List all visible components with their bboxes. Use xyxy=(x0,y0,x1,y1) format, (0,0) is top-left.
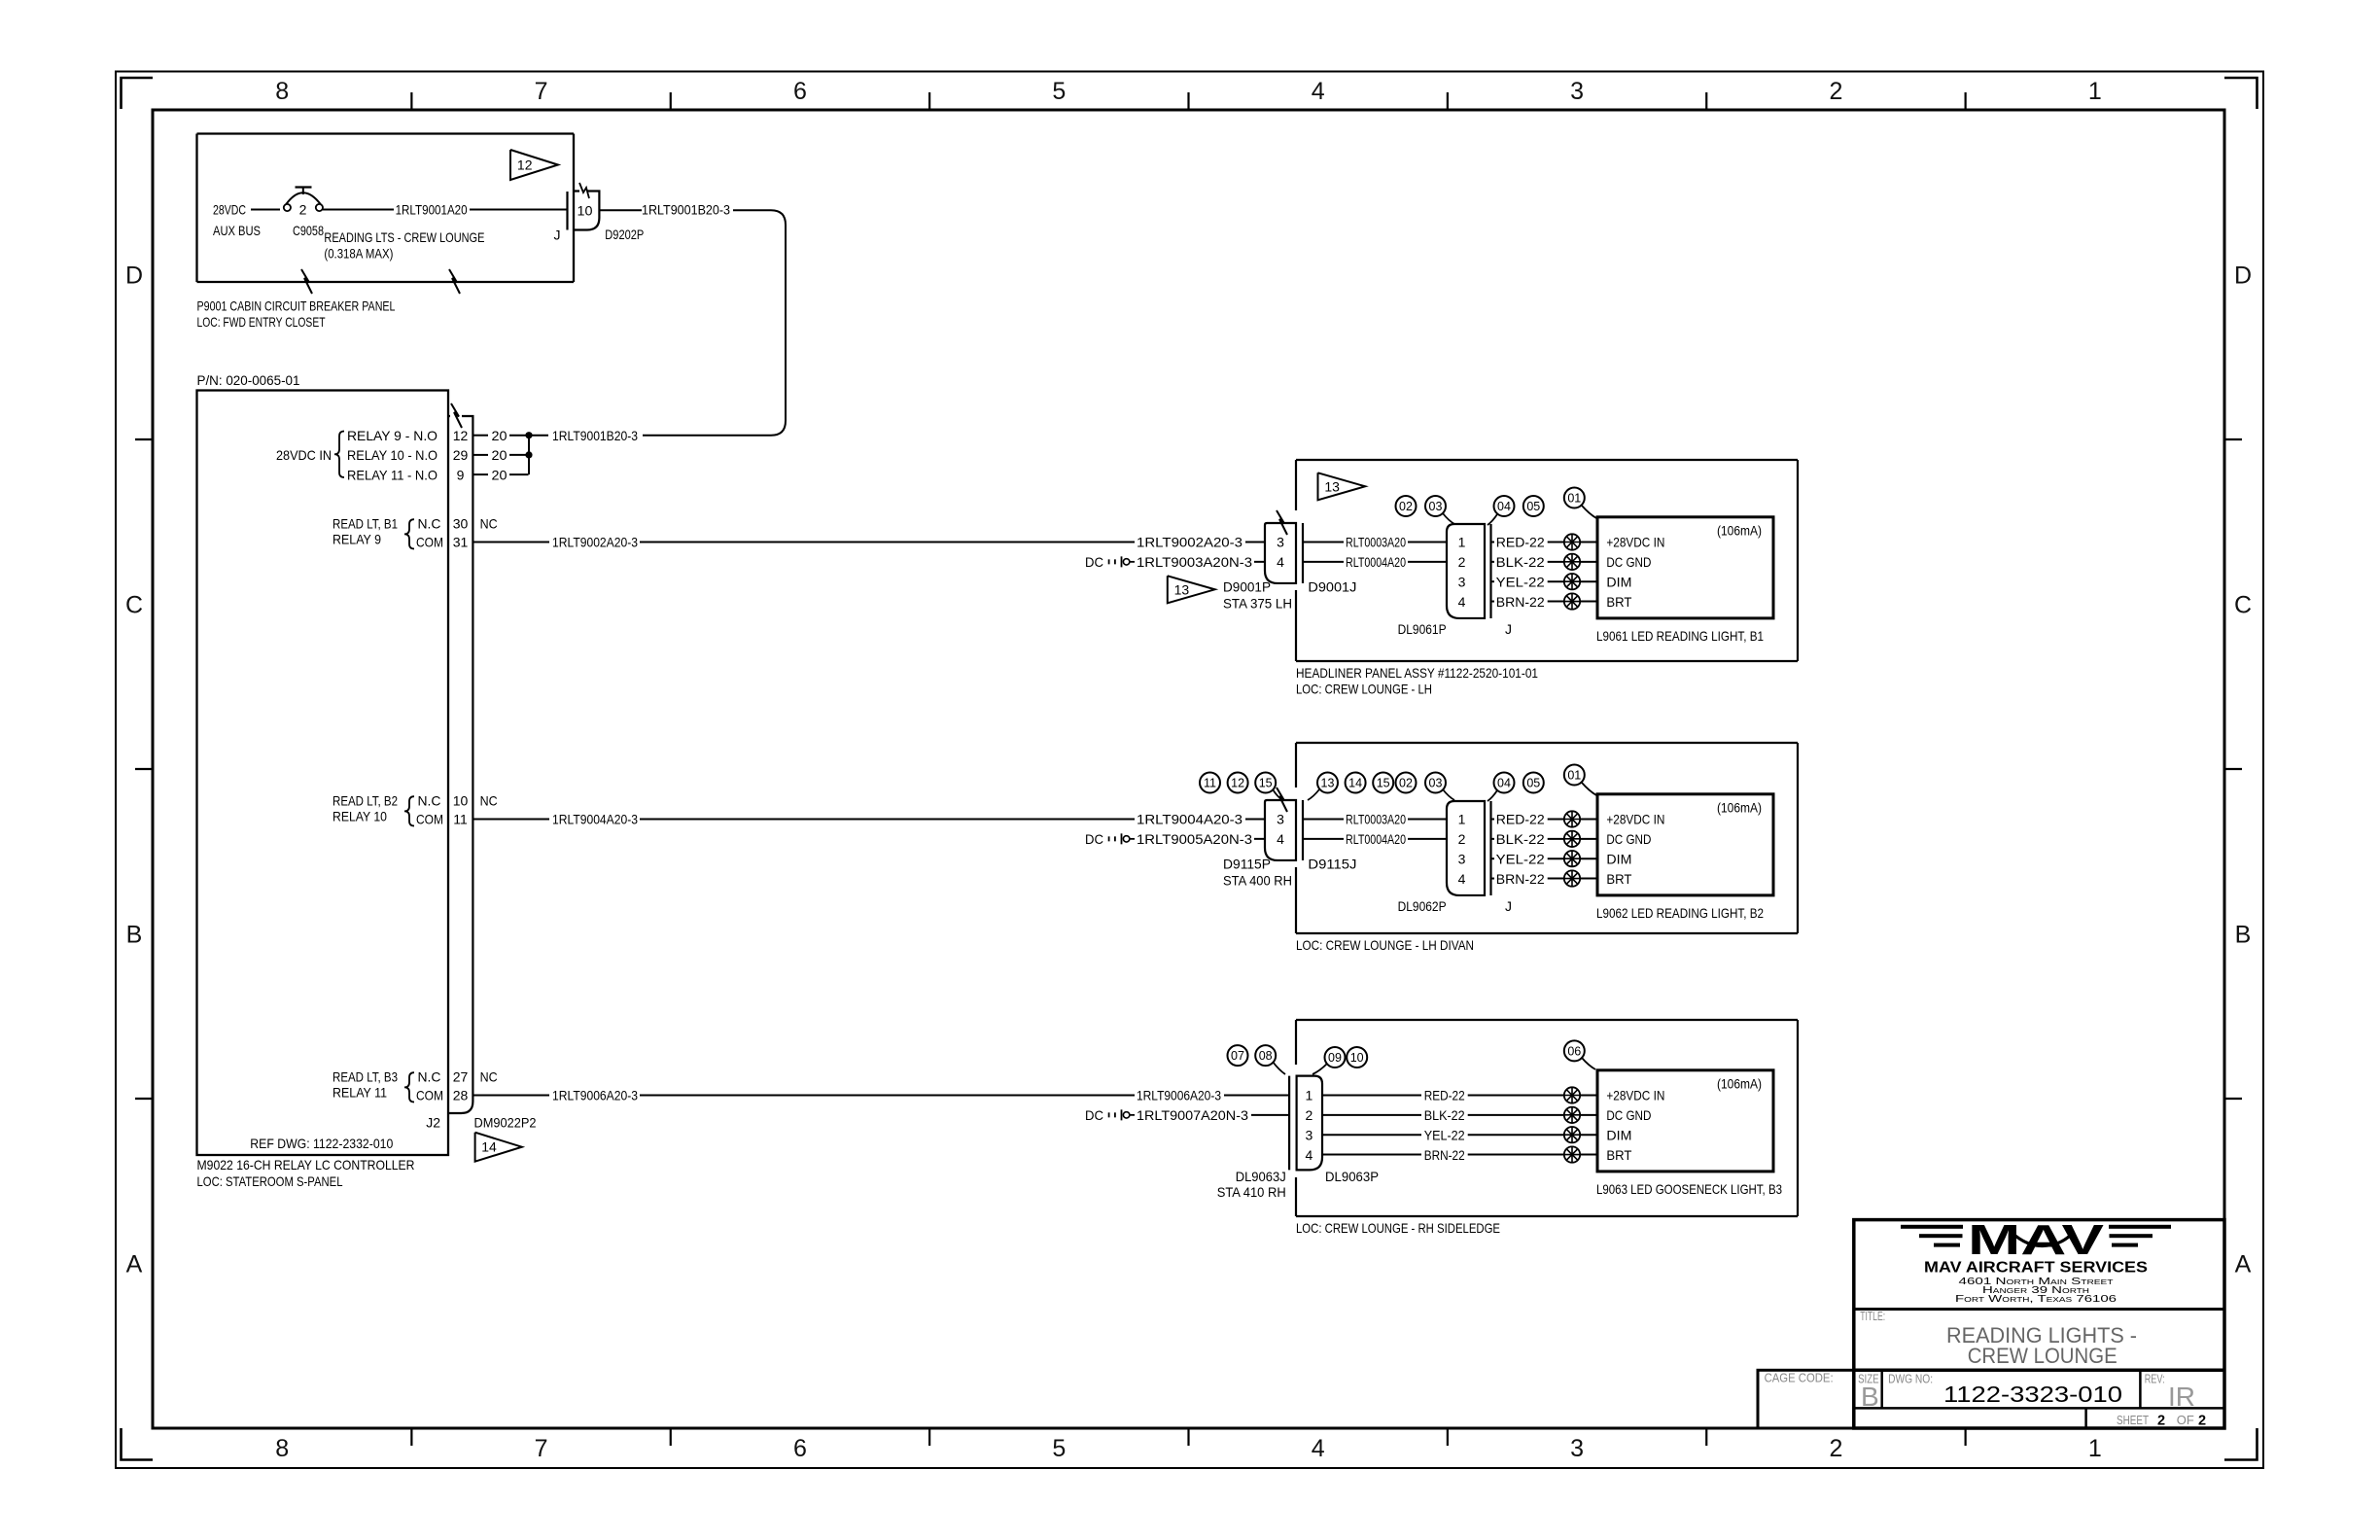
svg-text:28: 28 xyxy=(453,1088,469,1103)
svg-text:CAGE CODE:: CAGE CODE: xyxy=(1765,1371,1834,1384)
svg-text:BLK-22: BLK-22 xyxy=(1496,554,1545,570)
svg-text:6: 6 xyxy=(793,78,807,105)
svg-text:IR: IR xyxy=(2168,1382,2195,1412)
svg-text:03: 03 xyxy=(1429,500,1443,513)
svg-text:YEL-22: YEL-22 xyxy=(1424,1127,1465,1142)
svg-text:1RLT9001A20: 1RLT9001A20 xyxy=(396,202,468,218)
svg-text:1RLT9002A20-3: 1RLT9002A20-3 xyxy=(552,535,638,550)
svg-text:DC: DC xyxy=(1085,554,1103,570)
svg-text:11: 11 xyxy=(1204,777,1216,790)
svg-text:20: 20 xyxy=(492,447,507,463)
svg-text:COM: COM xyxy=(416,535,443,550)
svg-text:4: 4 xyxy=(1306,1147,1313,1163)
svg-text:7: 7 xyxy=(535,78,548,105)
svg-text:DM9022P2: DM9022P2 xyxy=(474,1114,537,1130)
svg-text:RED-22: RED-22 xyxy=(1496,535,1545,550)
svg-text:NC: NC xyxy=(480,792,498,808)
svg-text:1RLT9005A20N-3: 1RLT9005A20N-3 xyxy=(1137,831,1252,847)
svg-text:2: 2 xyxy=(1306,1107,1313,1123)
svg-text:05: 05 xyxy=(1526,500,1540,513)
svg-text:BRT: BRT xyxy=(1606,594,1631,610)
svg-text:13: 13 xyxy=(1174,581,1190,597)
svg-text:2: 2 xyxy=(1458,831,1466,847)
svg-text:15: 15 xyxy=(1377,777,1390,790)
svg-text:P/N: 020-0065-01: P/N: 020-0065-01 xyxy=(197,372,300,388)
svg-text:DC: DC xyxy=(1085,1107,1103,1123)
svg-text:J: J xyxy=(1505,898,1512,914)
svg-text:29: 29 xyxy=(453,447,469,463)
svg-text:DL9063P: DL9063P xyxy=(1325,1169,1379,1184)
svg-text:TITLE:: TITLE: xyxy=(1860,1310,1885,1323)
svg-text:N.C: N.C xyxy=(418,515,441,531)
svg-text:2: 2 xyxy=(1458,554,1466,570)
svg-text:BRN-22: BRN-22 xyxy=(1496,594,1545,610)
svg-text:30: 30 xyxy=(453,515,469,531)
svg-text:LOC: CREW LOUNGE - RH SIDELEDG: LOC: CREW LOUNGE - RH SIDELEDGE xyxy=(1296,1220,1500,1236)
svg-text:BRT: BRT xyxy=(1606,871,1631,887)
svg-text:N.C: N.C xyxy=(418,1068,441,1084)
svg-text:AUX BUS: AUX BUS xyxy=(213,223,261,238)
svg-text:28VDC: 28VDC xyxy=(213,202,246,218)
svg-text:DL9063J: DL9063J xyxy=(1236,1169,1286,1184)
svg-text:MAV: MAV xyxy=(1968,1216,2105,1264)
svg-text:LOC: CREW LOUNGE - LH DIVAN: LOC: CREW LOUNGE - LH DIVAN xyxy=(1296,937,1474,953)
svg-text:NC: NC xyxy=(480,1068,498,1084)
svg-text:J: J xyxy=(554,227,561,242)
svg-text:1RLT9007A20N-3: 1RLT9007A20N-3 xyxy=(1137,1107,1248,1123)
svg-text:RELAY 10: RELAY 10 xyxy=(332,809,387,824)
svg-text:+28VDC IN: +28VDC IN xyxy=(1606,812,1664,827)
svg-text:P9001 CABIN CIRCUIT BREAKER PA: P9001 CABIN CIRCUIT BREAKER PANEL xyxy=(197,297,396,313)
svg-text:20: 20 xyxy=(492,467,507,482)
svg-text:1RLT9002A20-3: 1RLT9002A20-3 xyxy=(1137,535,1242,550)
svg-text:4: 4 xyxy=(1277,554,1284,570)
svg-text:3: 3 xyxy=(1277,812,1284,827)
svg-text:READ LT, B1: READ LT, B1 xyxy=(332,515,398,531)
svg-text:L9061 LED READING LIGHT, B1: L9061 LED READING LIGHT, B1 xyxy=(1596,628,1764,644)
svg-text:28VDC IN: 28VDC IN xyxy=(276,447,332,463)
svg-text:1: 1 xyxy=(1458,535,1466,550)
svg-text:C: C xyxy=(125,592,143,619)
svg-text:RELAY 11 - N.O: RELAY 11 - N.O xyxy=(347,467,437,482)
svg-text:08: 08 xyxy=(1259,1049,1273,1063)
svg-text:10: 10 xyxy=(1350,1051,1364,1065)
svg-text:BRN-22: BRN-22 xyxy=(1424,1147,1465,1163)
svg-text:20: 20 xyxy=(492,428,507,443)
svg-text:4: 4 xyxy=(1277,831,1284,847)
svg-text:RELAY 9 - N.O: RELAY 9 - N.O xyxy=(347,428,437,443)
svg-text:11: 11 xyxy=(453,812,468,827)
svg-text:COM: COM xyxy=(416,1088,443,1103)
svg-text:1RLT9001B20-3: 1RLT9001B20-3 xyxy=(642,202,730,218)
svg-text:D9115J: D9115J xyxy=(1308,857,1356,872)
svg-text:14: 14 xyxy=(1348,777,1362,790)
svg-text:9: 9 xyxy=(457,467,465,482)
svg-text:LOC: CREW LOUNGE - LH: LOC: CREW LOUNGE - LH xyxy=(1296,682,1432,697)
svg-text:15: 15 xyxy=(1259,777,1273,790)
svg-text:1: 1 xyxy=(1458,812,1466,827)
svg-text:3: 3 xyxy=(1570,1435,1584,1462)
svg-text:M9022 16-CH RELAY LC CONTROLLE: M9022 16-CH RELAY LC CONTROLLER xyxy=(197,1157,415,1172)
svg-text:MAV AIRCRAFT SERVICES: MAV AIRCRAFT SERVICES xyxy=(1924,1260,2148,1277)
svg-text:DC: DC xyxy=(1085,831,1103,847)
svg-text:(106mA): (106mA) xyxy=(1717,1076,1762,1092)
svg-text:3: 3 xyxy=(1570,78,1584,105)
svg-text:RLT0003A20: RLT0003A20 xyxy=(1346,535,1406,550)
svg-text:D9202P: D9202P xyxy=(605,227,644,242)
svg-text:01: 01 xyxy=(1567,769,1581,783)
svg-text:12: 12 xyxy=(1231,777,1244,790)
svg-text:YEL-22: YEL-22 xyxy=(1496,851,1545,866)
svg-text:REV:: REV: xyxy=(2145,1373,2165,1386)
svg-text:D9001P: D9001P xyxy=(1223,579,1271,595)
svg-text:RELAY 10 - N.O: RELAY 10 - N.O xyxy=(347,447,437,463)
svg-text:SHEET: SHEET xyxy=(2117,1414,2149,1427)
svg-text:BLK-22: BLK-22 xyxy=(1424,1107,1465,1123)
svg-text:L9063 LED GOOSENECK LIGHT, B3: L9063 LED GOOSENECK LIGHT, B3 xyxy=(1596,1181,1782,1197)
svg-text:C: C xyxy=(2234,592,2252,619)
svg-text:DC GND: DC GND xyxy=(1606,831,1651,847)
svg-text:6: 6 xyxy=(793,1435,807,1462)
svg-text:READ LT, B2: READ LT, B2 xyxy=(332,792,398,808)
svg-text:(106mA): (106mA) xyxy=(1717,523,1762,539)
svg-text:2: 2 xyxy=(2157,1414,2165,1429)
svg-text:STA 410 RH: STA 410 RH xyxy=(1217,1184,1286,1200)
svg-text:1RLT9004A20-3: 1RLT9004A20-3 xyxy=(552,812,638,827)
svg-text:BRN-22: BRN-22 xyxy=(1496,871,1545,887)
svg-text:1122-3323-010: 1122-3323-010 xyxy=(1943,1382,2122,1407)
svg-text:DC GND: DC GND xyxy=(1606,1107,1651,1123)
svg-text:1RLT9004A20-3: 1RLT9004A20-3 xyxy=(1137,812,1242,827)
svg-text:COM: COM xyxy=(416,812,443,827)
svg-text:RED-22: RED-22 xyxy=(1424,1088,1465,1103)
svg-text:02: 02 xyxy=(1399,500,1413,513)
svg-text:A: A xyxy=(126,1251,143,1278)
svg-text:YEL-22: YEL-22 xyxy=(1496,574,1545,589)
svg-text:2: 2 xyxy=(299,202,307,218)
svg-text:HEADLINER PANEL ASSY #1122-252: HEADLINER PANEL ASSY #1122-2520-101-01 xyxy=(1296,665,1538,681)
svg-text:DL9062P: DL9062P xyxy=(1398,898,1447,914)
svg-text:J2: J2 xyxy=(426,1114,440,1130)
svg-text:3: 3 xyxy=(1458,851,1466,866)
svg-text:1RLT9003A20N-3: 1RLT9003A20N-3 xyxy=(1137,554,1252,570)
svg-text:BLK-22: BLK-22 xyxy=(1496,831,1545,847)
svg-text:N.C: N.C xyxy=(418,792,441,808)
svg-text:31: 31 xyxy=(453,535,469,550)
svg-text:1RLT9006A20-3: 1RLT9006A20-3 xyxy=(1137,1088,1221,1103)
svg-text:1RLT9006A20-3: 1RLT9006A20-3 xyxy=(552,1088,638,1103)
svg-text:13: 13 xyxy=(1321,777,1335,790)
svg-text:5: 5 xyxy=(1052,1435,1066,1462)
svg-text:10: 10 xyxy=(577,203,593,219)
svg-text:J: J xyxy=(1505,621,1512,637)
svg-text:09: 09 xyxy=(1328,1051,1342,1065)
svg-text:B: B xyxy=(2235,922,2252,949)
svg-text:RELAY 11: RELAY 11 xyxy=(332,1085,387,1101)
svg-text:13: 13 xyxy=(1324,478,1340,494)
svg-text:+28VDC IN: +28VDC IN xyxy=(1606,1088,1664,1103)
svg-text:D: D xyxy=(125,262,143,290)
svg-text:2: 2 xyxy=(2198,1414,2206,1429)
svg-text:REF DWG: 1122-2332-010: REF DWG: 1122-2332-010 xyxy=(250,1136,393,1151)
svg-text:8: 8 xyxy=(275,78,289,105)
svg-text:L9062 LED READING LIGHT, B2: L9062 LED READING LIGHT, B2 xyxy=(1596,905,1764,921)
svg-text:LOC: FWD ENTRY CLOSET: LOC: FWD ENTRY CLOSET xyxy=(197,314,326,330)
svg-text:STA 375 LH: STA 375 LH xyxy=(1223,595,1292,611)
svg-text:7: 7 xyxy=(535,1435,548,1462)
svg-text:D9001J: D9001J xyxy=(1308,579,1356,595)
svg-text:D: D xyxy=(2234,262,2252,290)
svg-text:27: 27 xyxy=(453,1068,469,1084)
svg-text:D9115P: D9115P xyxy=(1223,857,1271,872)
svg-text:C9058: C9058 xyxy=(293,223,324,238)
svg-text:BRT: BRT xyxy=(1606,1147,1631,1163)
svg-text:CREW LOUNGE: CREW LOUNGE xyxy=(1968,1344,2117,1368)
svg-text:STA 400 RH: STA 400 RH xyxy=(1223,872,1292,888)
svg-text:RELAY 9: RELAY 9 xyxy=(332,532,381,547)
svg-text:DL9061P: DL9061P xyxy=(1398,621,1447,637)
svg-text:(106mA): (106mA) xyxy=(1717,800,1762,816)
svg-text:07: 07 xyxy=(1231,1049,1244,1063)
svg-text:(0.318A MAX): (0.318A MAX) xyxy=(324,246,393,262)
svg-text:10: 10 xyxy=(453,792,469,808)
svg-text:01: 01 xyxy=(1567,492,1581,506)
svg-text:RED-22: RED-22 xyxy=(1496,812,1545,827)
svg-text:3: 3 xyxy=(1277,535,1284,550)
svg-text:1: 1 xyxy=(2088,1435,2102,1462)
svg-text:RLT0003A20: RLT0003A20 xyxy=(1346,812,1406,827)
svg-text:8: 8 xyxy=(275,1435,289,1462)
svg-text:RLT0004A20: RLT0004A20 xyxy=(1346,554,1406,570)
svg-text:02: 02 xyxy=(1399,777,1413,790)
svg-text:Fort Worth, Texas 76106: Fort Worth, Texas 76106 xyxy=(1955,1293,2117,1305)
svg-text:04: 04 xyxy=(1497,500,1511,513)
svg-text:A: A xyxy=(2235,1251,2252,1278)
svg-text:1: 1 xyxy=(1306,1088,1313,1103)
svg-text:12: 12 xyxy=(517,157,533,173)
svg-text:+28VDC IN: +28VDC IN xyxy=(1606,535,1664,550)
svg-text:06: 06 xyxy=(1567,1045,1581,1059)
svg-text:1RLT9001B20-3: 1RLT9001B20-3 xyxy=(552,428,638,443)
svg-text:05: 05 xyxy=(1526,777,1540,790)
svg-text:LOC: STATEROOM S-PANEL: LOC: STATEROOM S-PANEL xyxy=(197,1173,343,1189)
svg-text:DIM: DIM xyxy=(1606,574,1631,589)
svg-text:DC GND: DC GND xyxy=(1606,554,1651,570)
svg-text:12: 12 xyxy=(453,428,469,443)
svg-text:READING LTS - CREW LOUNGE: READING LTS - CREW LOUNGE xyxy=(324,229,484,245)
svg-text:14: 14 xyxy=(481,1139,497,1155)
svg-text:RLT0004A20: RLT0004A20 xyxy=(1346,831,1406,847)
svg-text:03: 03 xyxy=(1429,777,1443,790)
svg-text:B: B xyxy=(1861,1382,1879,1412)
svg-text:B: B xyxy=(126,922,143,949)
svg-text:4: 4 xyxy=(1312,1435,1325,1462)
svg-text:2: 2 xyxy=(1829,1435,1842,1462)
svg-text:OF: OF xyxy=(2177,1414,2194,1427)
svg-text:NC: NC xyxy=(480,515,498,531)
svg-text:4: 4 xyxy=(1458,871,1466,887)
svg-text:READ LT, B3: READ LT, B3 xyxy=(332,1068,398,1084)
svg-text:4: 4 xyxy=(1458,594,1466,610)
svg-text:5: 5 xyxy=(1052,78,1066,105)
svg-text:4: 4 xyxy=(1312,78,1325,105)
svg-text:3: 3 xyxy=(1458,574,1466,589)
svg-text:3: 3 xyxy=(1306,1127,1313,1142)
svg-text:DWG NO:: DWG NO: xyxy=(1888,1373,1933,1386)
svg-text:DIM: DIM xyxy=(1606,851,1631,866)
svg-text:04: 04 xyxy=(1497,777,1511,790)
svg-text:DIM: DIM xyxy=(1606,1127,1631,1142)
svg-text:1: 1 xyxy=(2088,78,2102,105)
svg-text:2: 2 xyxy=(1829,78,1842,105)
